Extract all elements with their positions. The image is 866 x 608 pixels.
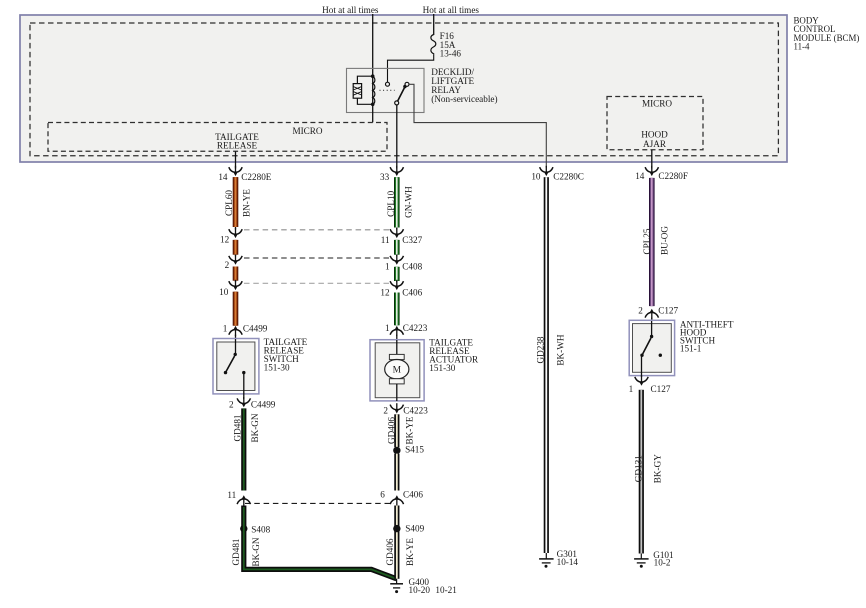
wire into actuator — [396, 335, 398, 340]
wire BN-YE segment 2 — [233, 240, 239, 255]
resistor (relay suppression) — [353, 76, 373, 104]
svg-text:BK-GN: BK-GN — [250, 413, 260, 442]
motor M symbol — [385, 340, 409, 401]
svg-text:BK-WH: BK-WH — [555, 334, 565, 365]
svg-text:BK-GN: BK-GN — [251, 537, 261, 566]
relay K1 DECKLID/LIFTGATE RELAY box — [347, 68, 425, 112]
inline connector dash C406 lower level — [245, 502, 394, 504]
splice S415 — [393, 445, 424, 455]
svg-text:CPL25: CPL25 — [642, 228, 652, 254]
wire CPL60 BN-YE segment 1 — [224, 177, 252, 227]
svg-text:C406: C406 — [403, 490, 423, 500]
splice S409 — [393, 524, 424, 534]
svg-text:11: 11 — [227, 490, 236, 500]
wire GD238 BK-WH — [536, 177, 566, 553]
svg-text:GD406: GD406 — [386, 417, 396, 444]
wire: hot feed to relay coil — [372, 14, 374, 76]
wire CPL25 BU-OG — [642, 178, 669, 306]
splice S408 — [240, 524, 270, 534]
relay switch blade and contacts — [395, 82, 409, 105]
connector C4499 pin 2 — [229, 397, 276, 409]
svg-text:C4499: C4499 — [243, 323, 268, 333]
svg-text:C2280F: C2280F — [658, 171, 688, 181]
ground G301 — [539, 549, 578, 568]
svg-text:M: M — [393, 366, 402, 376]
relay actuation dotted link — [380, 89, 395, 91]
TAILGATE RELEASE dashed block inside BCM — [48, 123, 387, 152]
switch name label — [264, 337, 308, 372]
svg-text:BK-GY: BK-GY — [652, 454, 662, 483]
svg-text:2: 2 — [383, 406, 388, 416]
svg-text:S409: S409 — [405, 524, 424, 534]
svg-text:(Non-serviceable): (Non-serviceable) — [431, 94, 497, 104]
svg-text:GD481: GD481 — [231, 538, 241, 565]
connector C127 pin 2 — [638, 306, 678, 319]
svg-text:13-46: 13-46 — [440, 49, 462, 59]
wire GD481 BK-GN segment upper — [232, 408, 260, 490]
svg-text:C408: C408 — [402, 261, 422, 271]
wire: hood ajar micro input from C2280F pin 14 — [651, 150, 653, 169]
tailgate release actuator M1 box — [370, 340, 424, 401]
svg-text:MICRO: MICRO — [642, 99, 672, 109]
connector pin 2 — [225, 255, 243, 270]
wire: hot feed to fuse F16 — [433, 14, 435, 35]
connector C327 pin 11 — [381, 228, 423, 246]
svg-text:1: 1 — [385, 323, 390, 333]
svg-text:S415: S415 — [405, 445, 424, 455]
actuator name label — [429, 337, 479, 373]
svg-text:14: 14 — [218, 172, 228, 182]
MICRO / HOOD AJAR dashed block inside BCM — [607, 97, 703, 150]
wire: fuse output to relay contact — [388, 54, 434, 82]
svg-text:2: 2 — [225, 260, 230, 270]
svg-text:GD131: GD131 — [633, 455, 643, 482]
svg-text:1: 1 — [629, 384, 634, 394]
connector C406 pin 6 — [380, 490, 423, 506]
svg-text:6: 6 — [380, 490, 385, 500]
wire CPL10 GN-WH segment 1 — [386, 177, 414, 227]
power feed label: Hot at all times (right) — [423, 5, 480, 15]
svg-text:BK-YE: BK-YE — [405, 416, 415, 444]
wire: relay coil to micro — [372, 104, 374, 122]
wire: relay NO contact to C2280C pin 10 — [409, 84, 546, 167]
wire BK-YE segment lower — [385, 506, 415, 579]
svg-text:11: 11 — [381, 235, 390, 245]
svg-text:CPL60: CPL60 — [224, 190, 234, 216]
wire BN-YE segment 4 — [233, 292, 239, 326]
svg-text:Hot at all times: Hot at all times — [322, 5, 379, 15]
svg-text:151-30: 151-30 — [264, 362, 290, 372]
connector C2280E pin 14 — [218, 166, 271, 182]
connector C2280F pin 14 — [635, 166, 688, 181]
svg-text:CPL10: CPL10 — [386, 190, 396, 216]
hood switch symbol — [640, 321, 662, 377]
wire: tailgate release micro output to C2280E pin 14 — [235, 152, 237, 169]
tailgate release switch S1 box — [213, 339, 259, 394]
svg-text:MICRO: MICRO — [292, 126, 322, 136]
connector pin 12 — [220, 227, 242, 244]
svg-text:C4499: C4499 — [251, 399, 276, 409]
svg-text:33: 33 — [380, 172, 390, 182]
anti-theft hood switch S2 box — [629, 320, 674, 375]
svg-text:151-1: 151-1 — [680, 344, 702, 354]
svg-text:GD406: GD406 — [385, 538, 395, 565]
wire GN-WH segment 4 — [394, 293, 400, 326]
connector pin 10 — [219, 280, 242, 297]
svg-text:BK-YE: BK-YE — [405, 538, 415, 566]
inline connector dash C327 level — [244, 229, 392, 231]
connector C4223 pin 2 — [383, 403, 428, 416]
svg-text:151-30: 151-30 — [429, 363, 455, 373]
svg-text:BN-YE: BN-YE — [242, 189, 252, 217]
svg-text:10-21: 10-21 — [435, 585, 457, 595]
svg-text:BU-OG: BU-OG — [659, 226, 669, 255]
svg-text:Hot at all times: Hot at all times — [423, 5, 480, 15]
connector pin 33 — [380, 166, 403, 182]
switch S1 symbol — [224, 339, 246, 399]
svg-text:GN-WH: GN-WH — [404, 186, 414, 218]
svg-text:2: 2 — [638, 306, 643, 316]
wire into hood switch — [651, 318, 653, 322]
power feed label: Hot at all times (left) — [322, 5, 379, 15]
wire: relay common down to pin 33 — [396, 105, 398, 169]
hood switch name label — [680, 320, 734, 354]
ground G400 — [390, 577, 457, 595]
BCM module box U1 (Body Control Module) — [20, 15, 787, 162]
svg-text:AJAR: AJAR — [643, 139, 667, 149]
wire GD481 BK-GN segment lower to ground — [231, 506, 396, 579]
svg-text:10-2: 10-2 — [654, 558, 671, 568]
connector C406 pin 12 — [380, 280, 422, 298]
relay label — [431, 67, 497, 104]
relay contact from fuse (pin 30) — [386, 82, 390, 86]
svg-text:10: 10 — [531, 171, 541, 181]
inline connector dash C408 level — [244, 257, 392, 259]
svg-text:12: 12 — [380, 288, 390, 298]
connector C4223 pin 1 — [385, 323, 428, 336]
svg-text:C2280E: C2280E — [241, 172, 272, 182]
svg-text:10-14: 10-14 — [557, 557, 579, 567]
svg-text:1: 1 — [223, 323, 228, 333]
svg-text:C4223: C4223 — [403, 323, 428, 333]
wire BN-YE segment 3 — [233, 267, 239, 281]
connector C4499 pin 1 — [223, 323, 268, 336]
svg-text:RELEASE: RELEASE — [217, 140, 258, 150]
svg-text:S408: S408 — [251, 524, 270, 534]
svg-text:10-20: 10-20 — [409, 585, 431, 595]
svg-text:C406: C406 — [402, 288, 422, 298]
BCM label text — [794, 15, 860, 51]
wire GN-WH segment 3 — [394, 267, 400, 281]
svg-text:C127: C127 — [658, 306, 678, 316]
connector C127 pin 1 — [629, 376, 671, 395]
svg-text:C327: C327 — [402, 235, 422, 245]
wire into switch — [235, 335, 237, 339]
ground G101 — [634, 550, 674, 568]
inline connector dash C406 level — [244, 282, 392, 284]
wire GD131 BK-GY — [633, 390, 662, 554]
fuse F16 15A — [431, 31, 462, 58]
BCM inner dashed boundary — [30, 23, 778, 156]
svg-text:C4223: C4223 — [403, 406, 428, 416]
svg-text:C127: C127 — [651, 384, 671, 394]
svg-text:1: 1 — [385, 261, 390, 271]
svg-text:14: 14 — [635, 171, 645, 181]
svg-text:10: 10 — [219, 287, 229, 297]
svg-text:GD481: GD481 — [232, 414, 242, 441]
connector pin 11 — [227, 490, 250, 506]
connector C2280C pin 10 — [531, 166, 584, 182]
svg-text:12: 12 — [220, 234, 230, 244]
svg-text:11-4: 11-4 — [794, 42, 811, 52]
relay coil L1 — [371, 74, 375, 106]
svg-text:C2280C: C2280C — [553, 171, 584, 181]
wire GD406 BK-YE segment upper — [386, 414, 414, 447]
wire GN-WH segment 2 — [394, 240, 400, 255]
svg-text:2: 2 — [229, 399, 234, 409]
connector C408 pin 1 — [385, 255, 423, 272]
svg-text:GD238: GD238 — [536, 336, 546, 363]
wire BK-YE segment mid — [394, 454, 399, 491]
